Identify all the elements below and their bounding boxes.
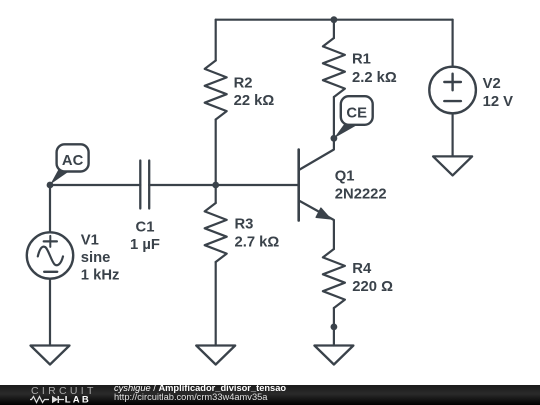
node junction top xyxy=(331,16,338,23)
node input xyxy=(47,182,54,189)
svg-text:R2: R2 xyxy=(234,76,253,92)
transistor Q1 xyxy=(299,138,334,249)
resistor R4 xyxy=(323,249,345,346)
node junction base xyxy=(212,182,219,189)
svg-text:2.2 kΩ: 2.2 kΩ xyxy=(352,70,397,86)
voltage source V1 xyxy=(27,185,73,346)
svg-text:2.7 kΩ: 2.7 kΩ xyxy=(235,235,280,251)
footer logo CIRCUIT xyxy=(31,385,97,397)
svg-text:2N2222: 2N2222 xyxy=(335,187,387,203)
wire xyxy=(149,184,299,186)
svg-text:1 µF: 1 µF xyxy=(130,237,160,253)
svg-text:V2: V2 xyxy=(483,76,501,92)
svg-text:R4: R4 xyxy=(352,261,372,277)
svg-text:12 V: 12 V xyxy=(483,94,514,110)
wire xyxy=(50,184,140,186)
resistor R1 xyxy=(323,20,345,139)
flag CE xyxy=(334,96,373,138)
ground xyxy=(31,346,70,365)
svg-text:sine: sine xyxy=(81,250,111,266)
svg-text:R3: R3 xyxy=(235,217,254,233)
node emitter-ground xyxy=(331,324,338,331)
footer logo LAB symbol xyxy=(30,394,100,405)
svg-text:AC: AC xyxy=(62,153,84,169)
flag AC xyxy=(50,144,88,184)
node collector xyxy=(331,135,338,142)
svg-text:V1: V1 xyxy=(81,232,99,248)
ground xyxy=(433,156,472,175)
wire xyxy=(216,19,453,21)
capacitor C1 xyxy=(140,161,149,209)
resistor R2 xyxy=(205,20,227,185)
svg-text:R1: R1 xyxy=(352,52,371,68)
svg-text:220 Ω: 220 Ω xyxy=(352,279,393,295)
resistor R3 xyxy=(205,185,227,346)
svg-text:C1: C1 xyxy=(136,220,155,236)
footer bar xyxy=(0,385,540,405)
svg-text:Q1: Q1 xyxy=(335,169,355,185)
voltage source V2 xyxy=(429,20,476,157)
ground xyxy=(314,346,353,365)
svg-text:LAB: LAB xyxy=(65,394,91,405)
ground xyxy=(196,346,235,365)
svg-text:22 kΩ: 22 kΩ xyxy=(234,93,275,109)
svg-text:CE: CE xyxy=(346,106,367,122)
svg-text:1 kHz: 1 kHz xyxy=(81,268,120,284)
footer credit line xyxy=(114,384,286,403)
